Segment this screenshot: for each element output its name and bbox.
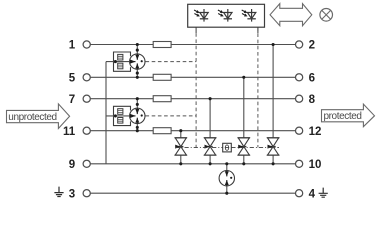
junction row5/D3 xyxy=(242,76,245,79)
terminal 6 xyxy=(296,72,316,84)
wire resistor R2 to terminal 6 xyxy=(171,76,295,78)
svg-text:11: 11 xyxy=(63,126,76,138)
junction line9-10/D4 xyxy=(272,162,275,165)
svg-text:8: 8 xyxy=(309,94,316,106)
junction line9-10/F3 xyxy=(225,162,228,165)
dashed signal line from LED box left leg xyxy=(195,33,197,147)
gas discharge tube F1 xyxy=(130,54,145,69)
gas discharge tube F3 xyxy=(219,171,234,186)
junction row5/F1 xyxy=(136,76,139,79)
terminal 5 xyxy=(69,72,91,84)
svg-text:2: 2 xyxy=(309,40,315,52)
F2 top electrode dot xyxy=(136,103,139,106)
unprotected side arrow label xyxy=(7,104,70,129)
wire to F2 contact xyxy=(106,115,130,117)
junction line9-10/D1 xyxy=(179,162,182,165)
wire row7 to suppressor D2 xyxy=(209,99,211,138)
status LED indicator xyxy=(194,9,208,22)
F1 top electrode dot xyxy=(136,49,139,52)
resistor R4 xyxy=(153,128,171,134)
junction row7/D2 xyxy=(209,97,212,100)
ground symbol left (terminal 3) xyxy=(54,187,63,197)
status LED indicator xyxy=(218,9,232,22)
terminal 11 xyxy=(63,126,90,138)
terminal 8 xyxy=(296,94,316,106)
junction row1/F1 xyxy=(136,43,139,46)
wire terminal 9 to terminal 10 xyxy=(90,163,295,165)
terminal 4 xyxy=(296,188,316,200)
terminal 1 xyxy=(69,40,91,52)
suppressor diode D2 xyxy=(204,138,217,155)
svg-text:9: 9 xyxy=(69,159,75,171)
junction at F2 contact xyxy=(114,114,117,117)
terminal 12 xyxy=(296,126,322,138)
bidirectional arrow symbol xyxy=(270,4,312,26)
svg-text:10: 10 xyxy=(309,159,322,171)
terminal 7 xyxy=(69,94,91,106)
gas discharge tube F2 xyxy=(130,108,145,123)
svg-text:3: 3 xyxy=(69,188,75,200)
wire resistor R4 to terminal 12 xyxy=(171,130,295,132)
wire suppressor D1 to line 9-10 xyxy=(180,155,182,164)
suppressor diode D1 xyxy=(175,138,188,155)
wire line 9-10 to GDT F3 xyxy=(226,164,228,171)
LED box left leg xyxy=(195,27,197,33)
wire GDT F3 to earth line xyxy=(226,186,228,193)
junction line9-10/D3 xyxy=(242,162,245,165)
terminal 3 xyxy=(69,188,91,200)
dashed signal line from LED box right leg xyxy=(257,27,259,147)
resistor R2 xyxy=(153,74,171,80)
wire GDT F2 to row11 xyxy=(136,124,138,131)
terminal 10 xyxy=(296,159,322,171)
LED indicator box U1 xyxy=(188,4,265,27)
wire terminal 7 to resistor R3 xyxy=(90,98,153,100)
wire suppressor D4 to line 9-10 xyxy=(272,155,274,164)
terminal 9 xyxy=(69,159,91,171)
wire terminal 1 to resistor R1 xyxy=(90,44,153,46)
terminal 2 xyxy=(296,40,316,52)
wire row5 to suppressor D3 xyxy=(243,77,245,138)
monitoring linkage dash-dot line xyxy=(175,147,279,149)
wire to F1 contact xyxy=(106,61,130,63)
junction row1/D4 xyxy=(272,43,275,46)
status LED indicator xyxy=(242,9,256,22)
wire terminal 11 to resistor R4 xyxy=(90,130,153,132)
junction at F1 contact xyxy=(114,60,117,63)
suppressor diode D3 xyxy=(238,138,251,155)
wire terminal 5 to resistor R2 xyxy=(90,76,153,78)
svg-text:7: 7 xyxy=(69,94,75,106)
suppressor diode D4 xyxy=(267,138,280,155)
junction earth line/F3 xyxy=(225,192,228,195)
svg-text:12: 12 xyxy=(309,126,322,138)
thermal disconnect contact F1 xyxy=(114,52,131,71)
wire row1 to GDT F1 xyxy=(136,45,138,54)
ground symbol right (terminal 4) xyxy=(319,188,328,198)
junction row11/D1 xyxy=(179,129,182,132)
thermal monitor element theta xyxy=(223,143,232,152)
wire row1 to suppressor D4 xyxy=(272,45,274,138)
wire terminal 3 to terminal 4 (earth line) xyxy=(90,192,295,194)
wire GDT F1 to row5 xyxy=(136,69,138,77)
resistor R3 xyxy=(153,96,171,102)
wire resistor R1 to terminal 2 xyxy=(171,44,295,46)
F2 bottom electrode dot xyxy=(136,126,139,129)
wire suppressor D2 to line 9-10 xyxy=(209,155,211,164)
dashed link GDT F2 to signal line xyxy=(146,115,197,117)
wire suppressor D3 to line 9-10 xyxy=(243,155,245,164)
svg-text:4: 4 xyxy=(309,188,316,200)
svg-text:1: 1 xyxy=(69,40,76,52)
wire row11 to suppressor D1 xyxy=(180,131,182,138)
F1 bottom electrode dot xyxy=(136,72,139,75)
dashed link GDT F1 to signal line xyxy=(146,61,197,63)
LED box right leg xyxy=(257,27,259,33)
junction row11/F2 xyxy=(136,129,139,132)
junction line9-10/D2 xyxy=(209,162,212,165)
protected side arrow label xyxy=(322,104,375,127)
wire resistor R3 to terminal 8 xyxy=(171,98,295,100)
resistor R1 xyxy=(153,42,171,48)
thermal disconnect contact F2 xyxy=(114,106,131,125)
svg-text:unprotected: unprotected xyxy=(8,112,56,123)
remote indicator lamp symbol xyxy=(320,9,333,22)
junction row7/F2 xyxy=(136,97,139,100)
svg-text:5: 5 xyxy=(69,72,76,84)
svg-text:protected: protected xyxy=(323,111,361,122)
wire GDT commons to line 9-10 xyxy=(105,62,107,164)
wire row7 to GDT F2 xyxy=(136,99,138,109)
svg-text:6: 6 xyxy=(309,72,315,84)
